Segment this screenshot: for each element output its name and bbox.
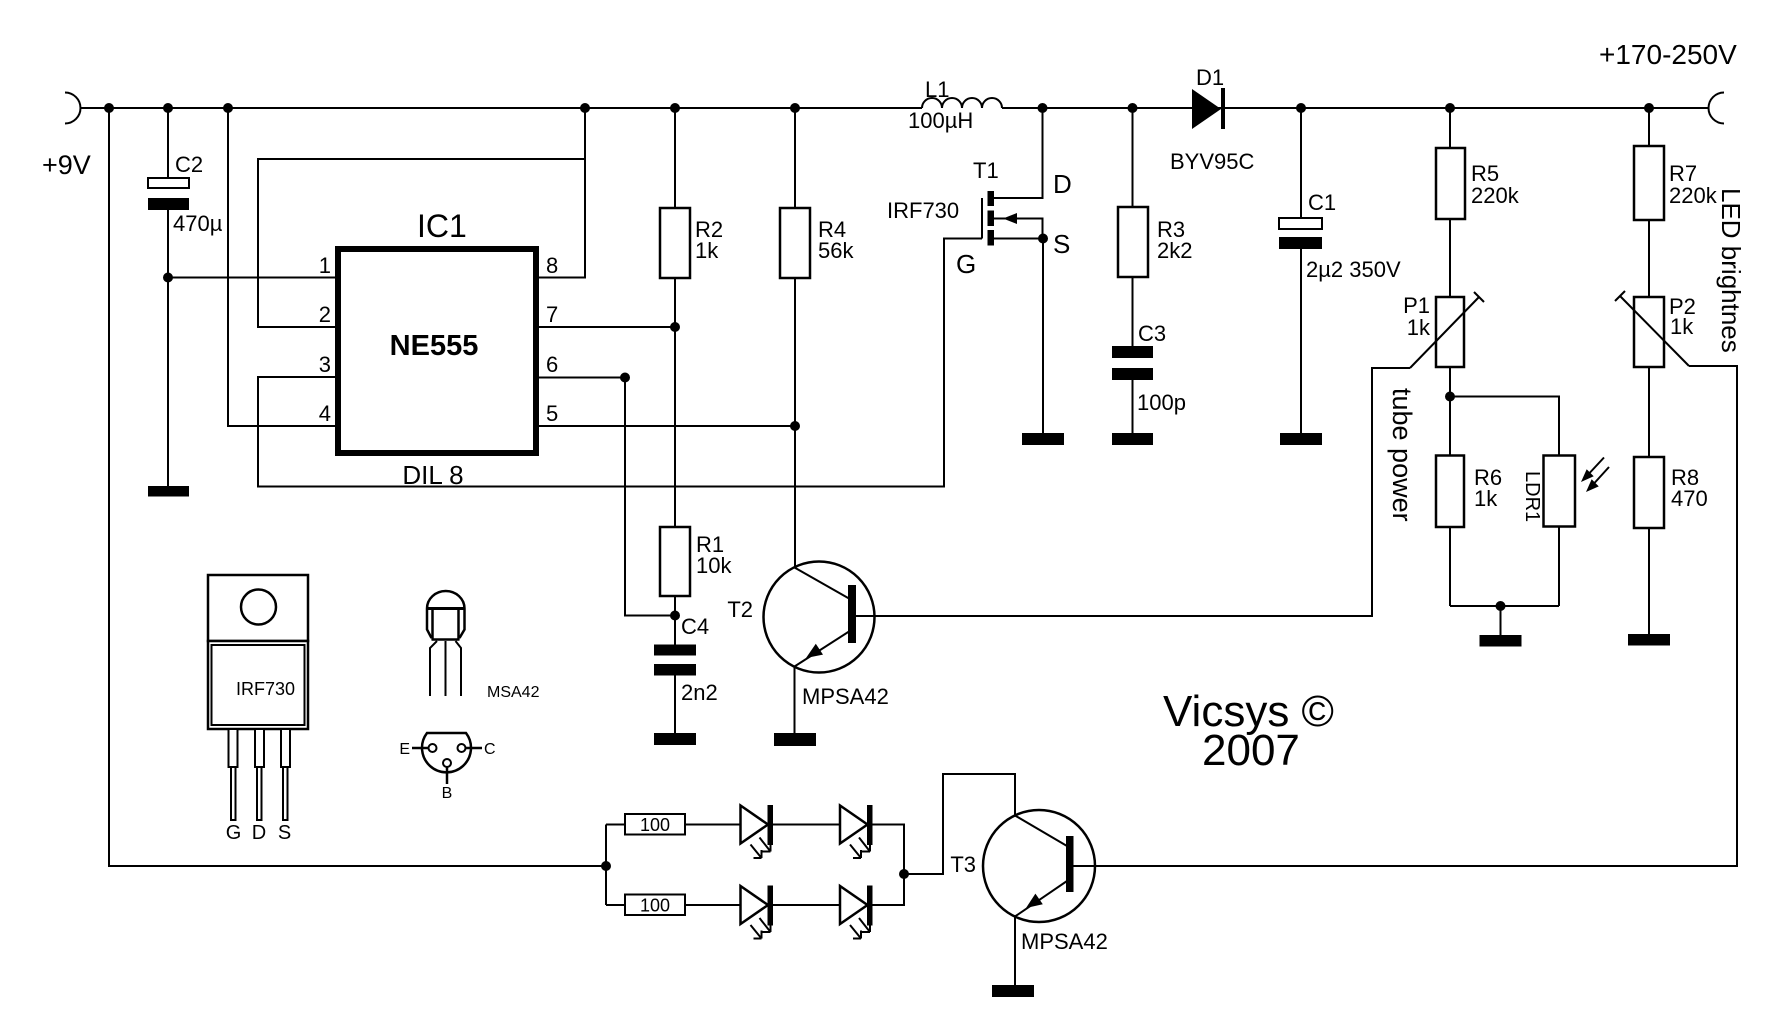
svg-text:C2: C2 xyxy=(175,152,203,177)
svg-text:100µH: 100µH xyxy=(908,108,973,133)
node P1 R6 junction xyxy=(1445,392,1455,402)
node C4 junction xyxy=(670,611,680,621)
node pin7 junction xyxy=(670,322,680,332)
wire pin5 xyxy=(539,425,795,427)
svg-text:BYV95C: BYV95C xyxy=(1170,149,1254,174)
resistor 100 bottom xyxy=(625,895,685,916)
svg-text:IRF730: IRF730 xyxy=(236,679,295,699)
svg-text:B: B xyxy=(442,785,453,802)
wire pin4 from rail xyxy=(228,108,335,426)
svg-text:7: 7 xyxy=(546,302,558,327)
node rail C1 junction xyxy=(1296,103,1306,113)
wire T2 base to P1 wiper xyxy=(856,368,1410,616)
capacitor C4 xyxy=(654,645,696,734)
terminal input +9V xyxy=(65,93,80,124)
svg-text:LDR1: LDR1 xyxy=(1521,471,1543,522)
svg-text:+170-250V: +170-250V xyxy=(1599,39,1737,70)
node rail pin8 junction xyxy=(580,103,590,113)
ground C4 xyxy=(654,733,696,745)
resistor R8 xyxy=(1634,457,1664,634)
svg-text:6: 6 xyxy=(546,352,558,377)
svg-text:T2: T2 xyxy=(727,597,753,622)
svg-text:L1: L1 xyxy=(925,77,949,102)
package IRF730 TO-220 xyxy=(208,575,308,820)
svg-text:5: 5 xyxy=(546,401,558,426)
ground C1 xyxy=(1280,433,1322,445)
svg-text:8: 8 xyxy=(546,253,558,278)
node rail R5 junction xyxy=(1445,103,1455,113)
svg-text:T3: T3 xyxy=(950,852,976,877)
node T1 source junction xyxy=(1038,234,1048,244)
terminal output +170-250V xyxy=(1709,93,1724,124)
svg-text:D: D xyxy=(252,822,266,844)
svg-text:DIL 8: DIL 8 xyxy=(402,460,463,490)
ground R8 xyxy=(1628,634,1670,646)
svg-text:tube power: tube power xyxy=(1387,388,1417,522)
node rail pin4 junction xyxy=(223,103,233,113)
label R7 220k xyxy=(1669,161,1718,208)
resistor 100 top xyxy=(625,814,685,835)
wire P1 bottom node xyxy=(1449,367,1451,456)
wire LED junction to T3 collector xyxy=(904,774,1015,874)
ground C2 xyxy=(148,486,189,497)
ground T2 xyxy=(774,733,816,746)
wire pin8 to rail xyxy=(539,108,585,278)
wire T1 source to ground xyxy=(1042,239,1044,434)
wire pin7 xyxy=(539,326,675,328)
wire LED top branch xyxy=(606,825,904,875)
transistor T3 MPSA42 xyxy=(983,810,1095,985)
ground R6 LDR xyxy=(1480,635,1522,647)
ground C3 xyxy=(1112,433,1153,445)
svg-text:C1: C1 xyxy=(1308,190,1336,215)
svg-text:G: G xyxy=(226,822,242,844)
svg-text:220k: 220k xyxy=(1669,183,1718,208)
capacitor C1 xyxy=(1279,108,1322,433)
wire node to LDR xyxy=(1450,397,1559,456)
LED D5 xyxy=(840,886,873,939)
svg-text:2k2: 2k2 xyxy=(1157,238,1192,263)
svg-text:2: 2 xyxy=(319,302,331,327)
svg-text:C4: C4 xyxy=(681,614,709,639)
svg-text:100: 100 xyxy=(640,896,670,916)
wire LED bottom branch xyxy=(606,874,904,905)
svg-text:MSA42: MSA42 xyxy=(487,684,540,701)
svg-text:56k: 56k xyxy=(818,238,854,263)
node rail-left drop junction xyxy=(104,103,114,113)
svg-text:C3: C3 xyxy=(1138,321,1166,346)
capacitor C2 xyxy=(148,108,189,486)
wire LED branch split xyxy=(605,825,607,906)
svg-text:D1: D1 xyxy=(1196,65,1224,90)
svg-text:2n2: 2n2 xyxy=(681,680,718,705)
svg-text:IRF730: IRF730 xyxy=(887,198,959,223)
label R4 56k xyxy=(818,217,854,263)
svg-text:2µ2 350V: 2µ2 350V xyxy=(1306,257,1401,282)
resistor R2 xyxy=(660,108,690,527)
LED D2 xyxy=(741,805,774,858)
svg-text:C: C xyxy=(484,741,496,758)
LED D4 xyxy=(741,886,774,939)
label R2 1k xyxy=(695,217,723,263)
svg-text:10k: 10k xyxy=(696,553,732,578)
svg-text:1k: 1k xyxy=(695,238,719,263)
node LED left junction xyxy=(601,861,611,871)
resistor R5 xyxy=(1436,108,1465,297)
wire P2 to R8 xyxy=(1648,367,1650,457)
node pin5 R4 junction xyxy=(790,421,800,431)
svg-text:100: 100 xyxy=(640,815,670,835)
wire pin6 to C4 xyxy=(539,378,675,616)
wire P2 wiper to T3 base xyxy=(1073,366,1737,866)
capacitor C3 xyxy=(1112,346,1153,433)
svg-text:1k: 1k xyxy=(1407,315,1431,340)
node LED right junction xyxy=(899,869,909,879)
ground T3 xyxy=(992,985,1034,997)
svg-text:S: S xyxy=(1053,229,1070,259)
transistor T1 IRF730 MOSFET xyxy=(982,108,1043,246)
svg-text:470µ: 470µ xyxy=(173,211,223,236)
wire pin1 to C2 xyxy=(168,277,335,279)
label R5 220k xyxy=(1471,161,1520,208)
node C2 pin1 junction xyxy=(163,273,173,283)
node pin6 corner junction xyxy=(620,373,630,383)
svg-text:1k: 1k xyxy=(1474,486,1498,511)
node rail R3 junction xyxy=(1128,103,1138,113)
node R6 LDR ground junction xyxy=(1496,601,1506,611)
svg-text:G: G xyxy=(956,249,976,279)
svg-text:S: S xyxy=(278,822,291,844)
op-amp IC1 NE555 box xyxy=(338,249,536,453)
svg-text:E: E xyxy=(399,741,410,758)
diode D1 BYV95C xyxy=(1192,88,1225,129)
label R1 10k xyxy=(696,532,732,578)
potentiometer P2 xyxy=(1615,291,1689,367)
package MSA42 TO-92 side view xyxy=(427,591,465,696)
svg-text:+9V: +9V xyxy=(42,150,91,180)
svg-text:220k: 220k xyxy=(1471,183,1520,208)
resistor R3 xyxy=(1118,108,1148,346)
wire R6 LDR bottoms xyxy=(1450,527,1559,635)
resistor R1 xyxy=(660,527,690,645)
node rail T1 drain junction xyxy=(1038,103,1048,113)
svg-text:1: 1 xyxy=(319,253,331,278)
package TO-92 bottom view xyxy=(412,733,482,784)
transistor T2 MPSA42 xyxy=(764,562,875,734)
svg-text:MPSA42: MPSA42 xyxy=(1021,929,1108,954)
node rail R2 junction xyxy=(670,103,680,113)
wire pin3 to T1 gate xyxy=(258,239,982,487)
svg-text:100p: 100p xyxy=(1137,390,1186,415)
label R6 1k xyxy=(1474,465,1502,511)
wire top +9V rail xyxy=(80,107,1709,109)
svg-text:NE555: NE555 xyxy=(390,330,479,362)
resistor R6 xyxy=(1436,456,1464,528)
node rail R4 junction xyxy=(790,103,800,113)
label R3 2k2 xyxy=(1157,217,1192,263)
resistor R7 xyxy=(1634,108,1664,297)
svg-text:D: D xyxy=(1053,169,1072,199)
wire left drop to LED row xyxy=(109,108,606,866)
resistor R4 xyxy=(780,108,810,568)
wire pin2 loop xyxy=(258,159,585,327)
resistor LDR1 xyxy=(1544,456,1576,527)
svg-text:470: 470 xyxy=(1671,486,1708,511)
LDR light arrows xyxy=(1581,458,1609,493)
svg-text:4: 4 xyxy=(319,401,331,426)
inductor L1 xyxy=(922,98,1002,108)
svg-text:1k: 1k xyxy=(1670,314,1694,339)
svg-text:T1: T1 xyxy=(973,158,999,183)
label P2 1k xyxy=(1669,294,1696,339)
svg-text:IC1: IC1 xyxy=(417,208,467,244)
potentiometer P1 xyxy=(1410,292,1484,368)
ground T1 xyxy=(1022,433,1064,445)
svg-text:MPSA42: MPSA42 xyxy=(802,684,889,709)
svg-text:3: 3 xyxy=(319,352,331,377)
node rail C2 junction xyxy=(163,103,173,113)
node rail R7 junction xyxy=(1644,103,1654,113)
LED D3 xyxy=(840,805,873,858)
svg-text:2007: 2007 xyxy=(1202,726,1300,775)
label P1 1k xyxy=(1403,293,1431,340)
label R8 470 xyxy=(1671,465,1708,511)
svg-text:LED brightnes: LED brightnes xyxy=(1716,188,1746,353)
